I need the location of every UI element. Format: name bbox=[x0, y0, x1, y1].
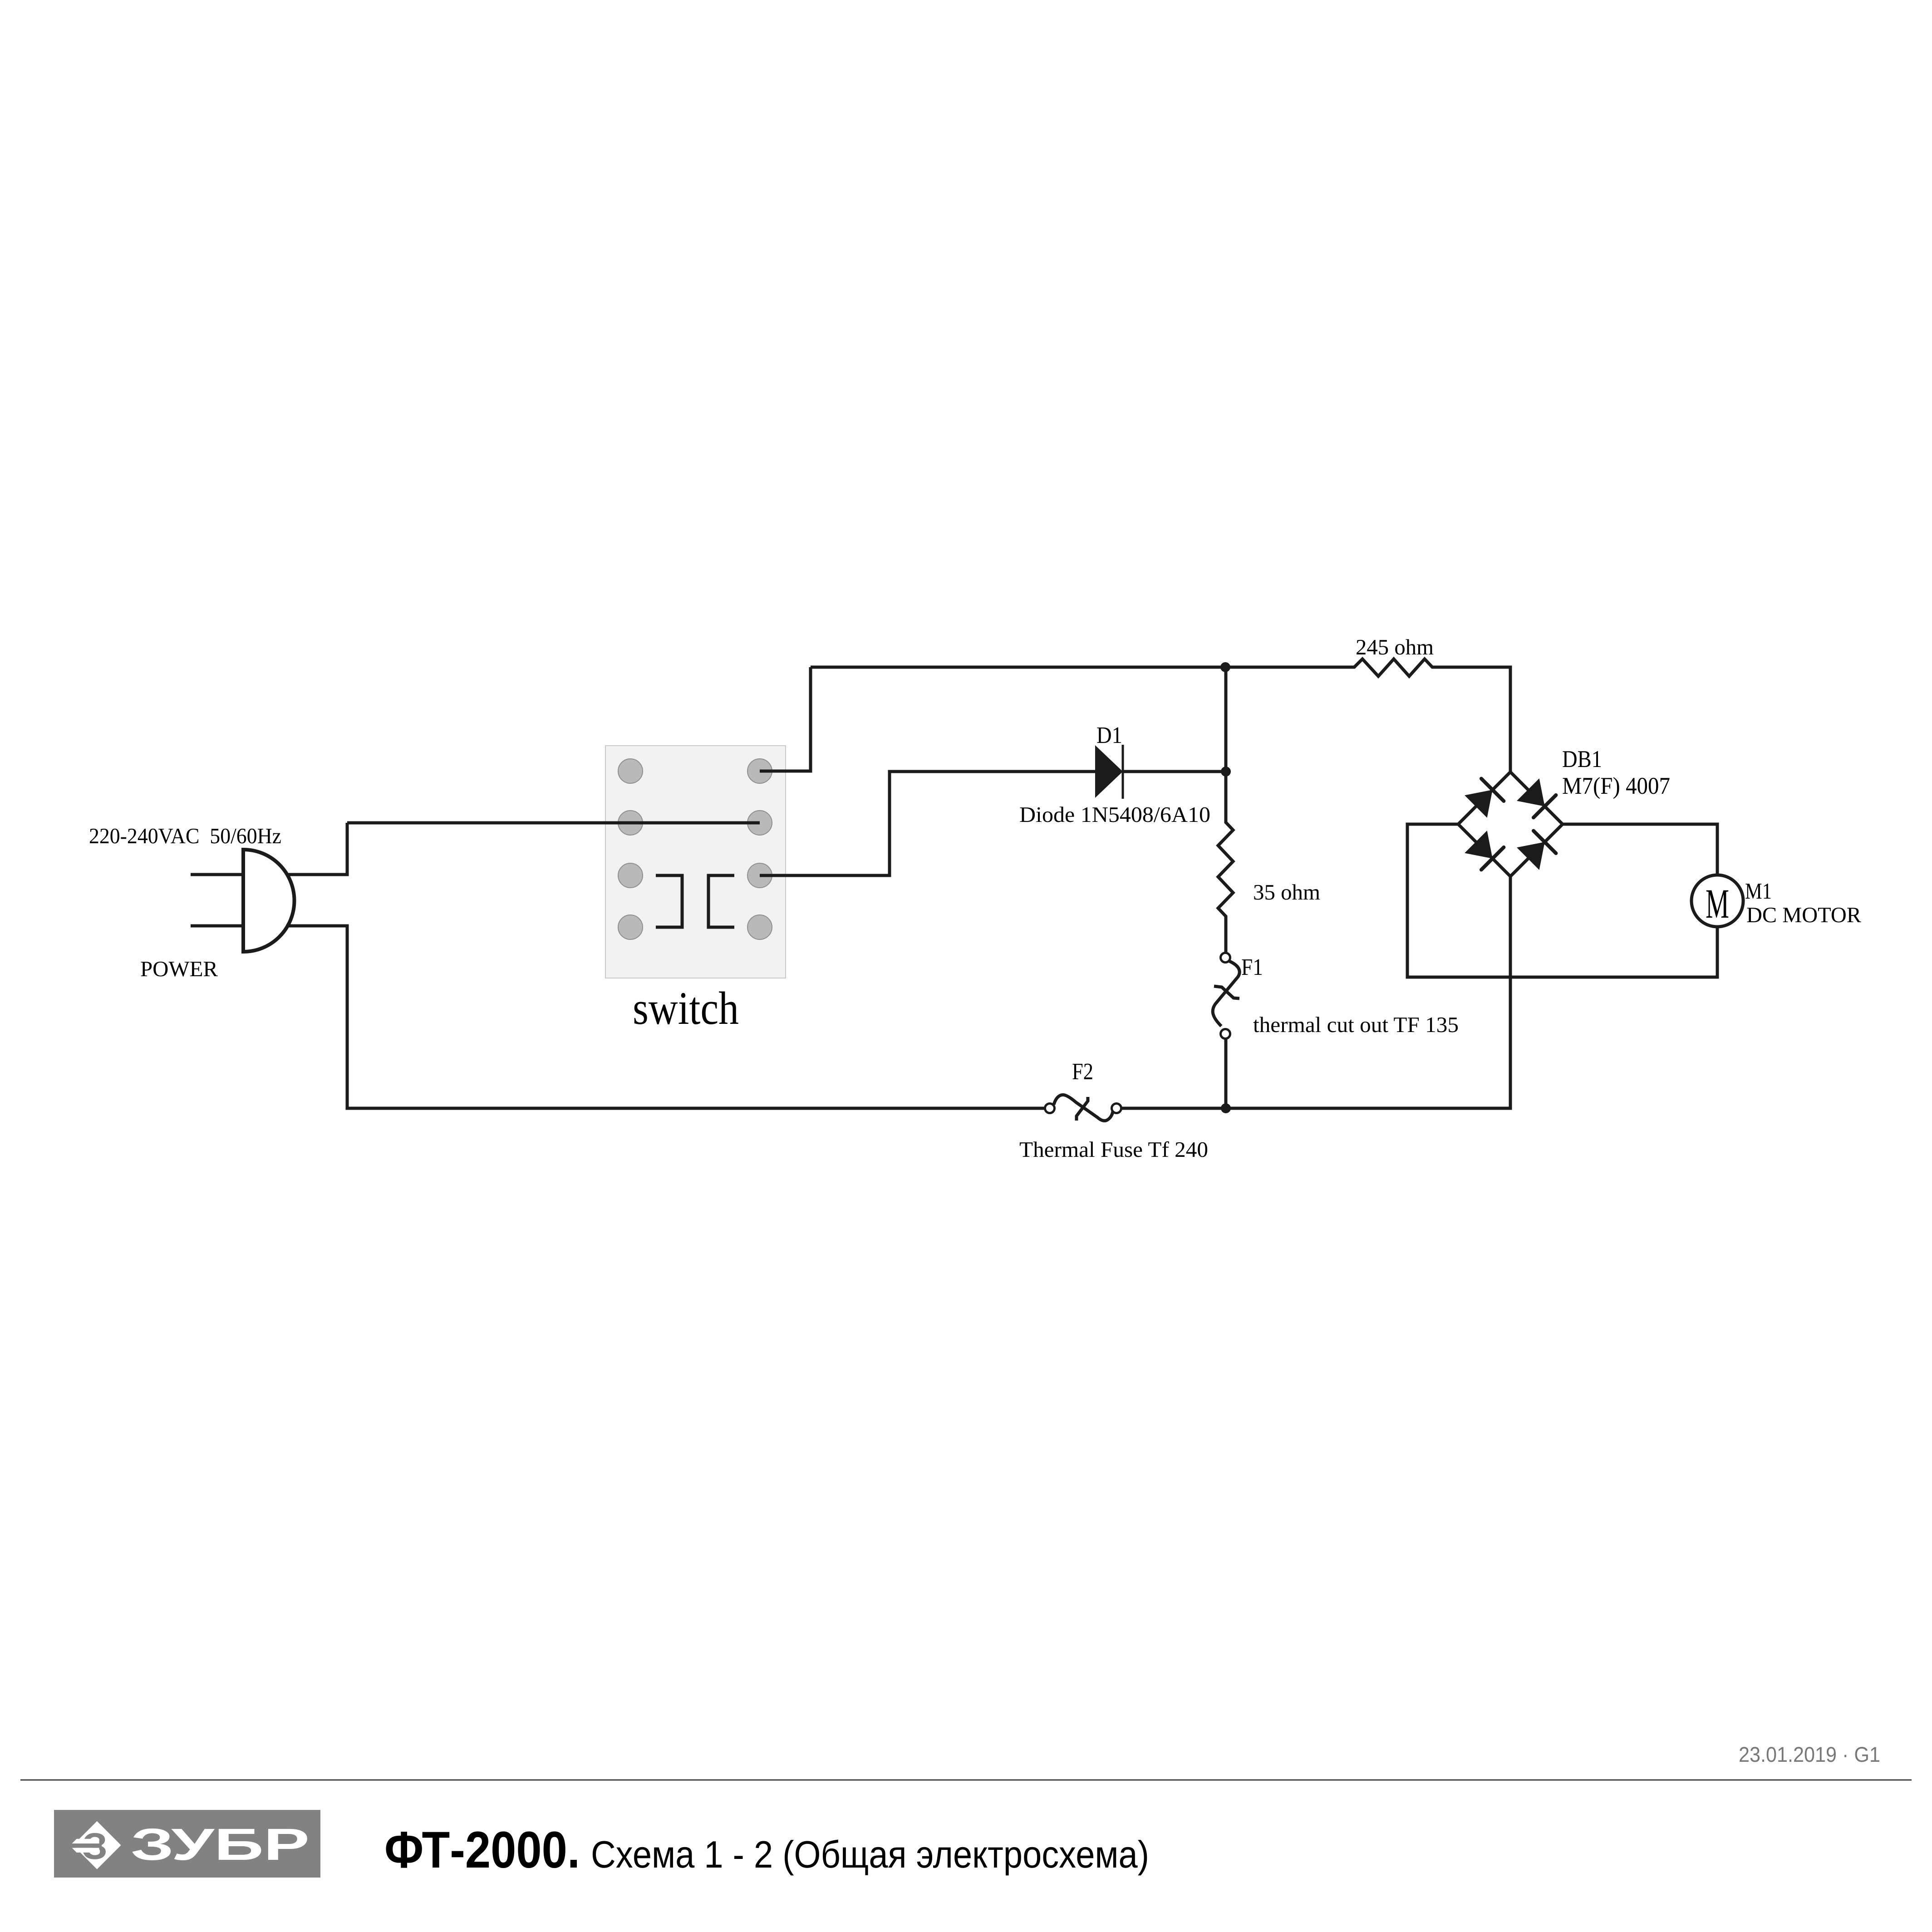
svg-text:F2: F2 bbox=[1072, 1059, 1093, 1085]
svg-text:ЗУБР: ЗУБР bbox=[131, 1819, 310, 1869]
svg-text:DC MOTOR: DC MOTOR bbox=[1746, 903, 1862, 927]
svg-text:ФТ-2000.: ФТ-2000. bbox=[384, 1821, 580, 1879]
svg-text:Схема 1 - 2 (Общая электросхем: Схема 1 - 2 (Общая электросхема) bbox=[591, 1833, 1149, 1876]
svg-text:220-240VAC 50/60Hz: 220-240VAC 50/60Hz bbox=[89, 824, 281, 848]
svg-text:245 ohm: 245 ohm bbox=[1356, 635, 1434, 659]
svg-text:POWER: POWER bbox=[140, 957, 218, 981]
svg-text:M7(F) 4007: M7(F) 4007 bbox=[1562, 773, 1670, 799]
svg-text:D1: D1 bbox=[1096, 723, 1122, 748]
svg-text:thermal cut out TF 135: thermal cut out TF 135 bbox=[1253, 1013, 1459, 1037]
svg-text:Thermal Fuse Tf 240: Thermal Fuse Tf 240 bbox=[1019, 1138, 1208, 1162]
svg-text:F1: F1 bbox=[1241, 954, 1263, 980]
svg-text:35 ohm: 35 ohm bbox=[1253, 880, 1320, 905]
svg-text:M: M bbox=[1706, 880, 1729, 927]
svg-text:23.01.2019 · G1: 23.01.2019 · G1 bbox=[1739, 1742, 1880, 1766]
svg-text:DB1: DB1 bbox=[1562, 746, 1602, 772]
svg-text:M1: M1 bbox=[1745, 878, 1772, 904]
svg-text:Diode 1N5408/6A10: Diode 1N5408/6A10 bbox=[1019, 803, 1210, 827]
svg-text:switch: switch bbox=[633, 983, 739, 1034]
